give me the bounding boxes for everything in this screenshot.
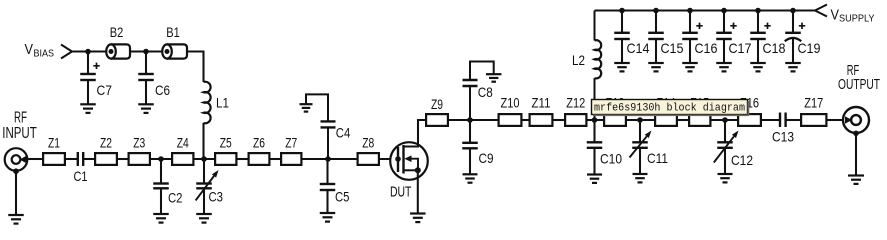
node L2/C10 junction <box>592 117 598 123</box>
impedance Z3 <box>129 135 150 165</box>
node C12 junction <box>722 117 728 123</box>
impedance Z7 <box>281 135 301 165</box>
ground (RF input) <box>8 215 24 224</box>
inductor L1 <box>204 82 230 124</box>
svg-text:C19: C19 <box>798 40 821 56</box>
svg-text:V: V <box>25 41 34 58</box>
node C2 junction <box>158 156 164 162</box>
impedance Z1 <box>43 135 65 165</box>
wire VBIAS rail <box>72 50 106 52</box>
capacitor C3 <box>196 159 224 223</box>
svg-text:SUPPLY: SUPPLY <box>839 13 875 25</box>
ferrite bead B1 <box>162 24 187 59</box>
input arrow VBIAS <box>61 45 72 59</box>
wire Z15 to Z16 <box>712 119 738 121</box>
svg-text:C18: C18 <box>763 40 786 56</box>
svg-text:C11: C11 <box>647 150 668 166</box>
svg-text:Z6: Z6 <box>253 135 265 151</box>
node C8/C9 junction <box>467 117 473 123</box>
svg-text:BIAS: BIAS <box>34 48 55 60</box>
capacitor C8 <box>463 62 494 121</box>
svg-text:Z2: Z2 <box>100 135 112 151</box>
svg-text:Z12: Z12 <box>566 95 585 111</box>
svg-text:C1: C1 <box>74 168 88 184</box>
svg-text:C2: C2 <box>168 190 183 206</box>
impedance Z12 <box>565 95 586 126</box>
capacitor C2 <box>153 159 182 223</box>
svg-text:C8: C8 <box>478 84 493 100</box>
svg-text:Z9: Z9 <box>431 96 443 112</box>
impedance Z10 <box>499 95 522 126</box>
node C19 junction <box>790 8 796 14</box>
capacitor C13 <box>772 113 794 145</box>
capacitor C10 <box>587 120 622 183</box>
impedance Z14 <box>655 95 677 126</box>
svg-text:V: V <box>831 6 840 23</box>
svg-text:C7: C7 <box>97 82 113 98</box>
node C15 junction <box>653 8 659 14</box>
svg-text:C3: C3 <box>209 189 224 205</box>
capacitor C15 <box>648 11 683 72</box>
wire output connector to ground <box>855 133 857 175</box>
wire connector to Z1 <box>27 158 42 160</box>
svg-text:Z3: Z3 <box>133 135 145 151</box>
capacitor C4 <box>306 94 350 159</box>
node C17 junction <box>721 8 727 14</box>
impedance Z5 <box>215 135 236 165</box>
wire L1 to main line <box>202 123 204 159</box>
capacitor C5 <box>320 159 350 222</box>
capacitor C9 <box>462 120 493 183</box>
capacitor C1 <box>74 152 88 184</box>
svg-text:C12: C12 <box>731 152 753 168</box>
ground (above C8) <box>486 74 502 82</box>
watermark box "mrfe6s9130h block diagram" <box>592 100 750 117</box>
ground (above C4) <box>300 104 313 111</box>
wire DUT source to ground <box>417 170 419 213</box>
wire Z10 to Z11 <box>523 119 529 121</box>
label RF OUTPUT <box>838 62 880 93</box>
RF input connector J1 <box>5 148 28 171</box>
svg-text:DUT: DUT <box>390 184 412 200</box>
capacitor C6 <box>138 52 170 113</box>
impedance Z2 <box>95 135 117 165</box>
svg-text:INPUT: INPUT <box>2 125 37 142</box>
svg-text:C9: C9 <box>479 150 494 166</box>
impedance Z16 <box>738 95 761 126</box>
wire Z4 to Z5 <box>195 158 215 160</box>
transistor DUT (LDMOS FET) <box>390 142 428 200</box>
svg-text:C14: C14 <box>627 40 650 56</box>
impedance Z17 <box>801 95 826 126</box>
svg-text:C4: C4 <box>336 125 351 141</box>
wire Z3 to Z4 <box>151 158 171 160</box>
node input connector shield <box>13 168 19 174</box>
node C14 junction <box>619 8 625 14</box>
capacitor C18 <box>750 11 785 72</box>
svg-text:C16: C16 <box>695 40 718 56</box>
svg-text:Z7: Z7 <box>285 135 297 151</box>
svg-text:Z5: Z5 <box>220 135 232 151</box>
svg-text:Z11: Z11 <box>532 95 551 111</box>
node C16 junction <box>687 8 693 14</box>
node C18 junction <box>755 8 761 14</box>
label RF INPUT <box>2 110 37 143</box>
wire C13 to Z17 <box>786 119 800 121</box>
node bias/C7 junction <box>85 49 91 55</box>
impedance Z4 <box>172 135 193 165</box>
node bias/C6 junction <box>143 49 149 55</box>
svg-text:L2: L2 <box>572 52 585 68</box>
capacitor C7 <box>80 52 112 113</box>
svg-text:L1: L1 <box>216 95 229 111</box>
ground (RF output) <box>848 176 864 184</box>
wire Z17 to output connector <box>828 119 844 121</box>
svg-text:Z17: Z17 <box>804 95 823 111</box>
inductor L2 <box>572 11 601 121</box>
wire B1 to L1 <box>187 52 204 83</box>
impedance Z13 <box>604 95 626 126</box>
node output connector shield <box>853 131 859 137</box>
wire Z11 to Z12 <box>554 119 565 121</box>
node L1/C3 junction <box>201 156 207 162</box>
ferrite bead B2 <box>106 24 130 59</box>
svg-text:mrfe6s9130h block diagram: mrfe6s9130h block diagram <box>594 103 745 115</box>
svg-text:RF: RF <box>14 110 27 127</box>
ground (DUT source) <box>410 214 426 223</box>
wire C1 to Z2 <box>83 158 94 160</box>
wire Z8 to DUT gate <box>380 158 398 160</box>
impedance Z8 <box>358 135 379 165</box>
svg-text:C17: C17 <box>729 40 752 56</box>
capacitor C14 <box>614 11 649 72</box>
node C11 junction <box>637 117 643 123</box>
wire VSUPPLY rail <box>595 9 816 11</box>
node C4/C5 junction <box>325 156 331 162</box>
capacitor C16 <box>682 11 717 72</box>
wire Z16 to C13 <box>762 119 780 121</box>
input arrow VSUPPLY <box>815 5 827 17</box>
svg-text:OUTPUT: OUTPUT <box>838 76 880 93</box>
svg-text:C6: C6 <box>155 82 170 98</box>
svg-text:Z4: Z4 <box>177 135 189 151</box>
wire Z12 to Z13 <box>588 119 604 121</box>
wire Z1 to C1 <box>66 158 78 160</box>
wire Z14 to Z15 <box>678 119 688 121</box>
svg-text:C13: C13 <box>772 129 794 145</box>
svg-text:C10: C10 <box>600 151 622 167</box>
svg-text:Z1: Z1 <box>48 135 60 151</box>
wire Z5 to Z6 <box>238 158 248 160</box>
svg-text:C15: C15 <box>661 40 684 56</box>
impedance Z15 <box>689 95 710 126</box>
wire connector to ground <box>15 171 17 215</box>
label VSUPPLY <box>831 6 875 24</box>
wire B2 to B1 <box>130 50 162 52</box>
svg-text:Z8: Z8 <box>362 135 374 151</box>
RF output connector J2 <box>843 107 869 133</box>
wire Z6 to Z7 <box>271 158 281 160</box>
capacitor C12 <box>714 120 753 182</box>
impedance Z6 <box>249 135 270 165</box>
impedance Z9 <box>426 96 448 126</box>
capacitor C19 <box>785 11 821 72</box>
wire Z9 to Z10 <box>449 119 498 121</box>
wire Z7 to Z8 <box>303 158 357 160</box>
svg-text:C5: C5 <box>335 189 350 205</box>
capacitor C17 <box>716 11 751 72</box>
impedance Z11 <box>530 95 553 126</box>
svg-text:Z10: Z10 <box>501 95 520 111</box>
wire Z2 to Z3 <box>118 158 128 160</box>
label VBIAS <box>25 41 55 60</box>
wire DUT drain to Z9 <box>418 120 425 143</box>
svg-text:B1: B1 <box>166 24 180 40</box>
svg-text:B2: B2 <box>110 24 124 40</box>
wire Z13 to Z14 <box>627 119 654 121</box>
capacitor C11 <box>630 120 669 182</box>
